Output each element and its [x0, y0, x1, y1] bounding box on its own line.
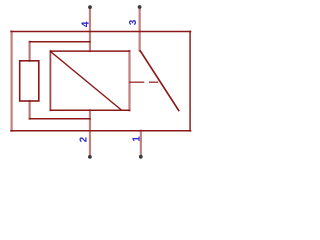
wire pin4 tee horizontal [30, 41, 90, 43]
coil box bottom edge [50, 109, 129, 111]
pin 1 dot [139, 155, 143, 159]
pin 4 [89, 8, 91, 51]
outline top edge [11, 31, 191, 33]
coil box left edge [49, 51, 51, 110]
pin 4 dot [88, 5, 92, 9]
svg-text:2: 2 [79, 136, 90, 142]
switch blade [140, 51, 178, 111]
linkage dash b [150, 81, 158, 83]
linkage dash a [130, 81, 144, 83]
pin 3 dot [138, 5, 142, 9]
pin 1 [140, 131, 142, 156]
pin 3 [139, 8, 141, 50]
coil diagonal [51, 52, 121, 110]
svg-text:1: 1 [131, 136, 142, 142]
outline left edge [11, 32, 13, 131]
pin 2 [89, 110, 91, 155]
wire resistor bottom down [29, 101, 31, 119]
wire to pin2 horizontal [30, 118, 90, 120]
svg-text:3: 3 [128, 19, 139, 25]
outline bottom edge [11, 130, 191, 132]
wire down to resistor top [29, 42, 31, 61]
coil box top edge [50, 50, 129, 52]
pin 2 dot [88, 155, 92, 159]
resistor body [20, 61, 39, 101]
outline right edge [189, 32, 191, 131]
coil box right edge [128, 51, 130, 110]
svg-text:4: 4 [80, 21, 91, 27]
